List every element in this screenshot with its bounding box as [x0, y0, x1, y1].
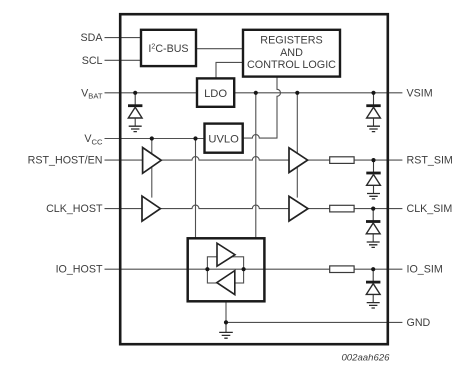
node RST_SIM-diode junction — [371, 158, 375, 162]
svg-text:RST_SIM: RST_SIM — [407, 155, 453, 167]
wire ground node of IO level shifter — [225, 301, 227, 322]
buffer IO forward (right pointing) — [217, 243, 235, 266]
node IO_SIM-diode junction — [371, 267, 375, 271]
wire CLK_SIM buffer to resistor — [308, 208, 330, 210]
wire VCC input to UVLO — [105, 138, 205, 140]
wire UVLO output with hop over VSIM vertical — [243, 135, 278, 139]
svg-text:I2C-BUS: I2C-BUS — [148, 43, 188, 55]
wire REGISTERS to LDO (elbow) — [216, 62, 243, 78]
diode ESD on VBAT — [128, 93, 142, 132]
wire VBAT input to LDO — [105, 92, 198, 94]
svg-text:CLK_HOST: CLK_HOST — [46, 203, 103, 215]
svg-text:IO_HOST: IO_HOST — [56, 264, 103, 276]
wire SCL input — [105, 59, 142, 61]
wire VCC supply vertical to IO level shifter — [195, 139, 197, 239]
wire VSIM supply vertical to SIM buffers — [296, 93, 298, 198]
svg-text:AND: AND — [280, 47, 303, 59]
diode ESD on IO_SIM — [366, 269, 380, 308]
block I2C-BUS — [141, 30, 196, 66]
wire REGISTERS to UVLO vertical with hop over VSIM rail — [277, 77, 281, 139]
svg-text:REGISTERS: REGISTERS — [260, 34, 322, 46]
svg-text:UVLO: UVLO — [208, 134, 239, 146]
wire VSIM supply vertical to IO level shifter — [255, 93, 257, 239]
wire RST middle with hops — [161, 157, 289, 160]
svg-text:002aah626: 002aah626 — [341, 353, 390, 364]
wire IO resistor to IO_SIM pin — [354, 268, 402, 270]
node VBAT-diode junction — [133, 91, 137, 95]
resistor IO_SIM series — [330, 266, 354, 273]
wire CLK_HOST input — [105, 208, 143, 210]
outer IC boundary box — [120, 14, 388, 344]
node VSIM-diode junction — [371, 91, 375, 95]
buffer RST host — [143, 148, 162, 174]
diode ESD on RST_SIM — [366, 160, 380, 199]
node VSIM rail / VCC-side shifter supply — [254, 91, 258, 95]
block IO bidirectional level shifter box — [188, 238, 265, 301]
node VCC / IO shifter supply — [193, 136, 197, 140]
node VSIM rail / SIM buffer supply — [295, 91, 299, 95]
wire VSIM rail (LDO output to VSIM pin) — [234, 92, 402, 94]
wire IO_HOST through level shifter to resistor — [105, 268, 330, 270]
wire CLK middle with hops — [160, 205, 289, 208]
svg-text:SCL: SCL — [82, 55, 103, 67]
block UVLO — [205, 124, 243, 153]
resistor CLK_SIM series — [330, 205, 354, 212]
svg-text:RST_HOST/EN: RST_HOST/EN — [28, 155, 103, 167]
svg-text:SDA: SDA — [81, 32, 104, 44]
node VCC / host buffer supply — [150, 136, 154, 140]
wire I2C-BUS to REGISTERS — [196, 48, 243, 50]
wire VCC supply vertical to host buffers — [151, 139, 153, 198]
node IO shifter left — [205, 267, 209, 271]
svg-text:CLK_SIM: CLK_SIM — [407, 203, 453, 215]
node IO shifter right — [242, 267, 246, 271]
wire RST resistor to RST_SIM pin — [354, 159, 402, 161]
buffer CLK host — [142, 196, 160, 221]
buffer CLK SIM side — [289, 196, 308, 221]
wire GND line to GND pin — [226, 321, 402, 323]
wire IO level shifter inner loop — [207, 257, 243, 283]
svg-text:VSIM: VSIM — [407, 87, 433, 99]
ground symbol of internal GND node — [219, 322, 233, 338]
block LDO — [197, 78, 234, 106]
wire RST_SIM buffer to resistor — [307, 159, 329, 161]
resistor RST_SIM series — [330, 157, 354, 164]
wire CLK resistor to CLK_SIM pin — [354, 208, 402, 210]
block REGISTERS AND CONTROL LOGIC — [243, 30, 340, 77]
svg-text:IO_SIM: IO_SIM — [407, 264, 443, 276]
wire RST_HOST/EN input — [105, 159, 144, 161]
svg-text:LDO: LDO — [204, 88, 227, 100]
node GND junction — [224, 320, 228, 324]
svg-text:GND: GND — [407, 317, 431, 329]
buffer RST SIM side — [289, 148, 308, 173]
diode ESD on VSIM — [366, 93, 380, 132]
svg-text:CONTROL LOGIC: CONTROL LOGIC — [247, 59, 336, 71]
wire SDA input — [105, 37, 142, 39]
diode ESD on CLK_SIM — [366, 209, 380, 248]
buffer IO reverse (left pointing) — [217, 271, 235, 295]
node CLK_SIM-diode junction — [371, 207, 375, 211]
